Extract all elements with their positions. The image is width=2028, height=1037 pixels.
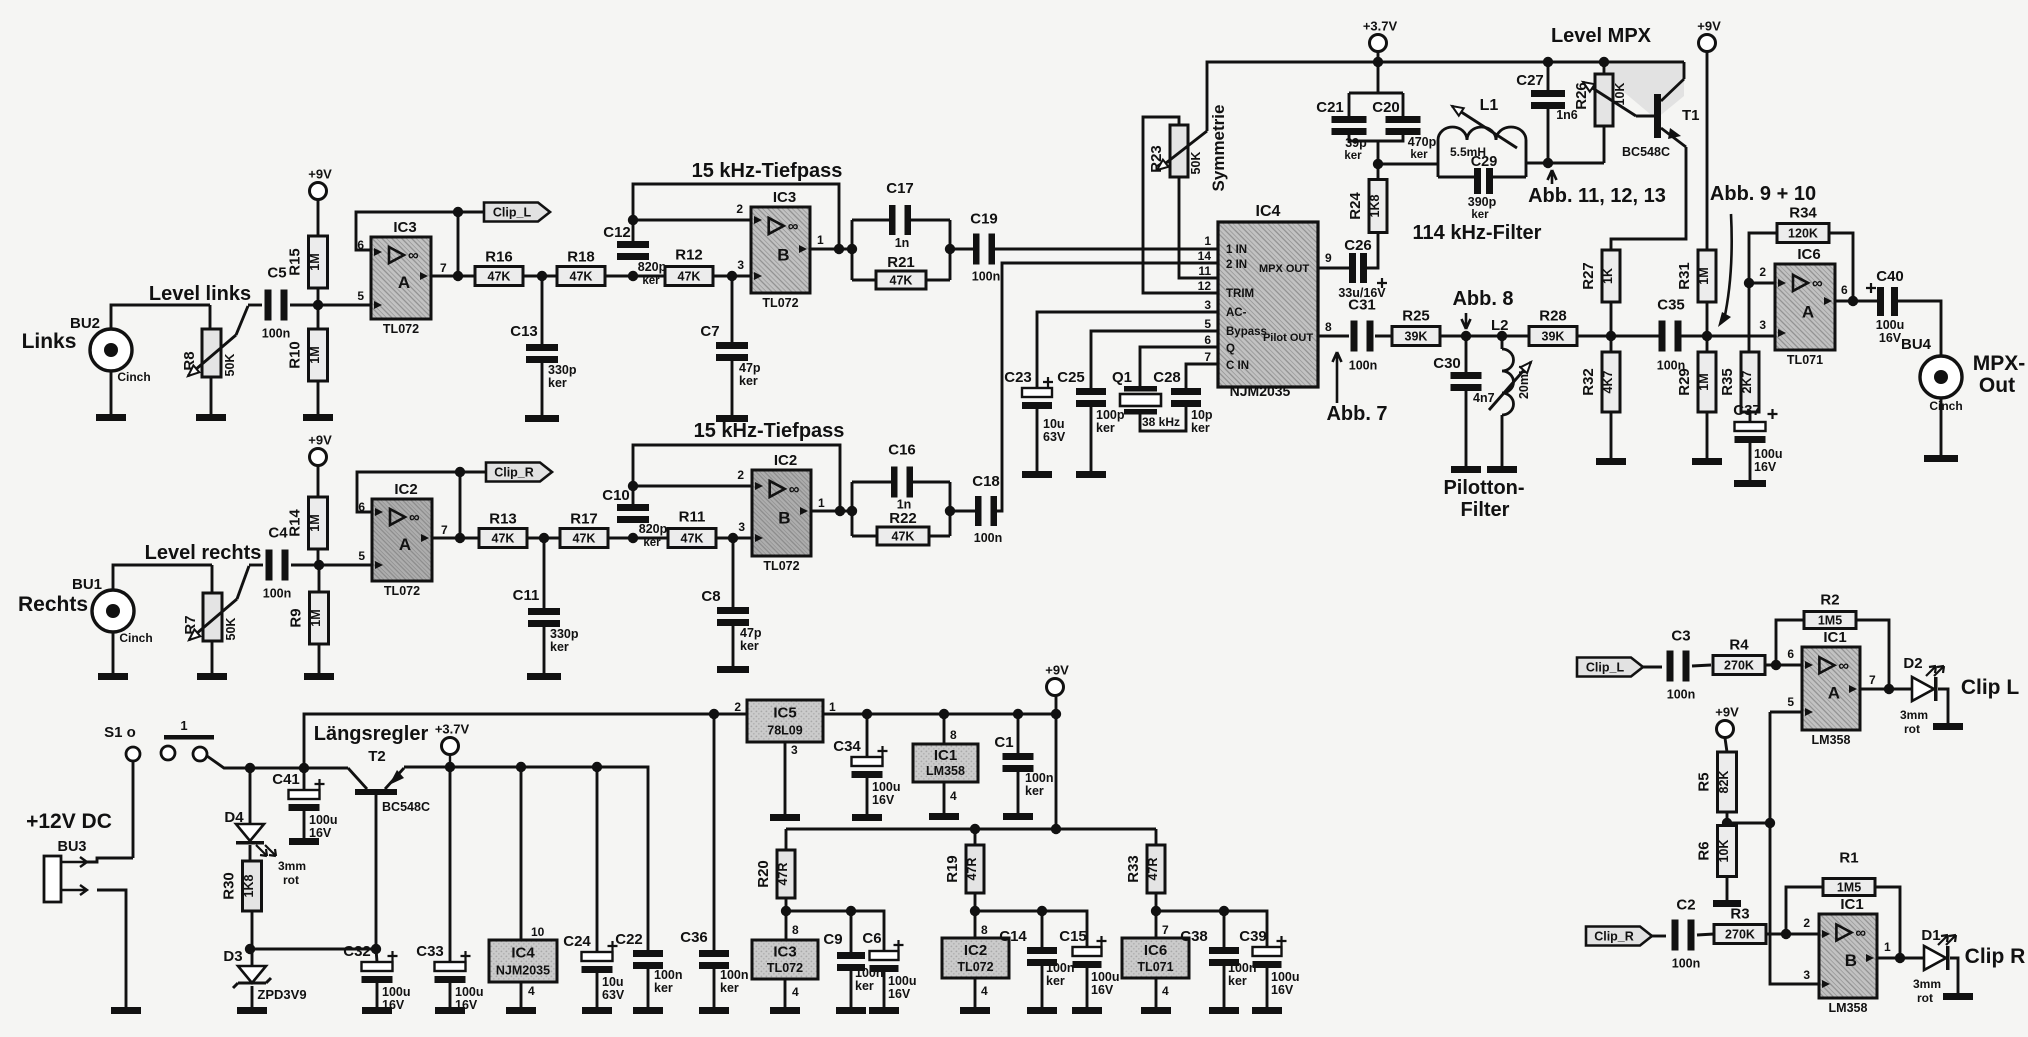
svg-text:100n: 100n: [1657, 359, 1686, 373]
svg-text:47K: 47K: [492, 532, 515, 546]
wire: [784, 742, 787, 814]
wire: [431, 275, 476, 278]
junction: [592, 762, 602, 772]
wire: [318, 643, 321, 673]
capacitor C1: [994, 734, 1053, 798]
svg-text:1K: 1K: [1601, 268, 1615, 284]
ground: [1933, 723, 1963, 730]
svg-text:C12: C12: [603, 224, 631, 241]
capacitor C26: [1338, 237, 1387, 300]
svg-text:IC3: IC3: [393, 219, 416, 236]
svg-text:330p: 330p: [550, 627, 579, 641]
wire: [1186, 364, 1218, 388]
wire: [1055, 714, 1058, 829]
wire: [1155, 893, 1158, 938]
ground: [435, 1007, 465, 1014]
svg-text:2 IN: 2 IN: [1226, 259, 1247, 271]
wire: [236, 306, 248, 335]
resistor R12: [665, 247, 713, 286]
svg-text:C1: C1: [994, 734, 1013, 751]
svg-text:IC2: IC2: [964, 942, 987, 959]
junction: [1771, 660, 1781, 670]
svg-text:7: 7: [1162, 923, 1169, 937]
junction: [1373, 57, 1383, 67]
svg-text:C37: C37: [1733, 402, 1761, 419]
+3.7V supply (regulator): [435, 722, 470, 755]
ground: [716, 415, 748, 422]
wire: [1143, 117, 1218, 293]
svg-text:3: 3: [1803, 968, 1810, 982]
svg-text:BU4: BU4: [1901, 336, 1932, 353]
resistor R4: [1713, 637, 1765, 675]
wire: [132, 761, 135, 858]
resistor R29: [1676, 352, 1716, 412]
wire: [731, 276, 734, 342]
inductor L1 (5.5mH) with C29 tank: [1438, 97, 1526, 221]
svg-text:100n: 100n: [263, 587, 292, 601]
svg-text:R14: R14: [287, 509, 304, 537]
wire: [211, 565, 214, 593]
wire: [994, 248, 1218, 251]
svg-text:C25: C25: [1057, 369, 1085, 386]
capacitor C40: [1866, 268, 1904, 345]
wire: [1041, 911, 1044, 947]
svg-text:7: 7: [1869, 673, 1876, 687]
svg-text:47p: 47p: [739, 361, 761, 375]
svg-text:16V: 16V: [1754, 460, 1777, 474]
resistor R27: [1580, 250, 1620, 302]
wire: [1636, 115, 1655, 118]
wire: [251, 949, 254, 966]
svg-text:IC3: IC3: [773, 189, 796, 206]
ground: [852, 814, 882, 821]
svg-text:R27: R27: [1580, 262, 1597, 290]
+9V supply (links): [308, 167, 332, 200]
wire: [1318, 267, 1349, 270]
svg-text:100p: 100p: [1096, 408, 1125, 422]
svg-text:1: 1: [180, 718, 187, 733]
wire: [1706, 302, 1709, 336]
junction: [1606, 331, 1616, 341]
svg-text:16V: 16V: [309, 826, 332, 840]
svg-text:+9V: +9V: [308, 167, 332, 182]
svg-text:820p: 820p: [638, 260, 667, 274]
junction: [834, 244, 844, 254]
svg-text:C38: C38: [1180, 928, 1208, 945]
svg-text:7: 7: [1204, 350, 1211, 364]
wire: [1697, 934, 1714, 935]
wire: [251, 986, 254, 1007]
svg-text:47R: 47R: [776, 863, 790, 886]
resistor R31: [1676, 250, 1716, 302]
connector BU1 (Cinch): [72, 576, 153, 645]
ground: [1924, 455, 1958, 462]
wire: [290, 304, 371, 307]
capacitor C7: [700, 323, 760, 388]
wire: [732, 626, 735, 666]
junction: [299, 763, 309, 773]
svg-text:9: 9: [1325, 251, 1332, 265]
wire: [248, 304, 262, 307]
svg-text:82K: 82K: [1717, 771, 1731, 794]
resistor R25: [1392, 308, 1440, 346]
diode D1: [1924, 935, 1956, 970]
wire: [1643, 666, 1662, 669]
+9V supply (regulator out): [1045, 663, 1069, 696]
svg-text:R2: R2: [1820, 592, 1839, 609]
svg-text:114 kHz-Filter: 114 kHz-Filter: [1413, 222, 1542, 244]
op-amp IC1B: [1819, 896, 1877, 1015]
switch S1: [104, 718, 214, 761]
wire: [1493, 176, 1526, 179]
wire: [851, 220, 854, 280]
svg-text:2: 2: [734, 700, 741, 714]
text Abb. 7 with arrow: [1333, 352, 1342, 403]
wire: [950, 510, 976, 513]
ground: [1943, 993, 1973, 1000]
wire: [1207, 61, 1684, 63]
svg-text:B: B: [778, 508, 790, 527]
svg-text:8: 8: [981, 923, 988, 937]
svg-text:NJM2035: NJM2035: [1230, 383, 1291, 399]
ground: [1596, 458, 1626, 465]
svg-text:4: 4: [950, 789, 957, 803]
svg-text:4: 4: [1162, 984, 1169, 998]
junction: [835, 506, 845, 516]
wire: [211, 641, 214, 673]
wire: [1766, 933, 1819, 936]
svg-text:47p: 47p: [740, 626, 762, 640]
svg-text:MPX OUT: MPX OUT: [1259, 263, 1309, 275]
potentiometer R23 (Symmetrie): [1148, 125, 1203, 177]
wire: [811, 510, 854, 513]
svg-text:IC1: IC1: [1840, 896, 1863, 913]
ground: [869, 1007, 899, 1014]
svg-text:Level MPX: Level MPX: [1551, 25, 1652, 47]
wire: [1877, 957, 1924, 960]
wire: [1037, 312, 1218, 388]
wire: [929, 535, 950, 538]
svg-text:1M: 1M: [1697, 373, 1711, 390]
svg-text:BU3: BU3: [57, 839, 86, 855]
capacitor C18: [972, 473, 1002, 545]
wire: [1349, 92, 1403, 95]
ground: [836, 1007, 866, 1014]
wire: [1440, 335, 1528, 338]
svg-text:100u: 100u: [455, 985, 484, 999]
svg-text:100u: 100u: [1754, 447, 1783, 461]
svg-text:∞: ∞: [789, 481, 800, 498]
svg-text:C14: C14: [999, 928, 1027, 945]
junction: [1373, 159, 1383, 169]
svg-text:47K: 47K: [681, 532, 704, 546]
svg-text:Clip R: Clip R: [1965, 945, 2026, 968]
wire: [543, 538, 546, 608]
svg-text:+9V: +9V: [1045, 663, 1069, 678]
wire: [1155, 978, 1158, 1007]
svg-text:IC6: IC6: [1797, 246, 1820, 263]
wire: [850, 971, 853, 1007]
resistor R21: [876, 254, 926, 289]
wire: [249, 768, 252, 824]
svg-text:TL071: TL071: [1137, 960, 1173, 974]
text Abb. 11, 12, 13 with arrow: [1548, 170, 1557, 184]
svg-text:1M5: 1M5: [1818, 614, 1842, 628]
capacitor C19: [970, 211, 1000, 284]
svg-text:R4: R4: [1729, 637, 1749, 654]
svg-text:270K: 270K: [1725, 928, 1755, 942]
svg-text:C10: C10: [602, 487, 630, 504]
junction: [537, 271, 547, 281]
svg-text:8: 8: [792, 923, 799, 937]
svg-text:5: 5: [357, 289, 364, 303]
svg-text:100u: 100u: [872, 780, 901, 794]
wire: [1856, 620, 1889, 689]
svg-text:R9: R9: [288, 608, 305, 627]
svg-text:R15: R15: [287, 248, 304, 276]
wire: [1749, 443, 1752, 480]
svg-text:C30: C30: [1433, 355, 1461, 372]
svg-text:C41: C41: [272, 771, 300, 788]
node node Clip_R (input): [1586, 927, 1652, 946]
ground: [1003, 813, 1033, 820]
svg-text:8: 8: [1325, 320, 1332, 334]
junction: [1722, 818, 1732, 828]
wire: [541, 363, 544, 415]
svg-text:T2: T2: [368, 748, 386, 765]
capacitor C39: [1239, 928, 1299, 997]
wire: [731, 361, 734, 415]
wire: [1501, 336, 1504, 349]
wire: [250, 948, 376, 951]
svg-text:47K: 47K: [892, 530, 915, 544]
junction: [628, 215, 638, 225]
wire: [318, 565, 321, 593]
wire: [786, 911, 884, 951]
wire: [1090, 407, 1093, 471]
svg-text:C39: C39: [1239, 928, 1267, 945]
junction: [314, 560, 324, 570]
junction: [245, 944, 255, 954]
svg-text:39K: 39K: [1405, 330, 1428, 344]
wire: [523, 275, 557, 278]
svg-text:C24: C24: [563, 933, 591, 950]
wire: [304, 714, 747, 768]
capacitor C6: [862, 930, 916, 1001]
wire: [1610, 412, 1613, 458]
svg-text:+3.7V: +3.7V: [1363, 19, 1398, 34]
svg-text:100u: 100u: [888, 974, 917, 988]
svg-text:2: 2: [1803, 916, 1810, 930]
wire: [317, 381, 320, 414]
svg-text:39K: 39K: [1542, 330, 1565, 344]
wire: [1140, 347, 1218, 386]
svg-text:10u: 10u: [1043, 417, 1065, 431]
IC IC2 (power): [942, 938, 1009, 978]
wire: [1726, 877, 1729, 900]
wire: [541, 276, 544, 344]
svg-text:D2: D2: [1903, 655, 1922, 672]
svg-text:6: 6: [1204, 333, 1211, 347]
svg-text:C5: C5: [267, 265, 286, 282]
svg-text:L2: L2: [1491, 317, 1509, 334]
svg-text:TL071: TL071: [1787, 353, 1823, 367]
wire: [784, 979, 787, 1007]
svg-text:100u: 100u: [309, 813, 338, 827]
svg-text:T1: T1: [1682, 107, 1700, 124]
svg-text:Cinch: Cinch: [1929, 399, 1962, 413]
wire: [974, 978, 977, 1007]
svg-text:A: A: [399, 535, 411, 554]
svg-text:TL072: TL072: [763, 559, 799, 573]
wire: [1603, 126, 1606, 163]
wire: [1017, 772, 1020, 813]
op-amp IC2B: [752, 452, 811, 573]
ground: [1713, 900, 1741, 907]
svg-text:AC-: AC-: [1226, 307, 1247, 319]
ground: [1022, 471, 1052, 478]
wire: [943, 714, 946, 744]
svg-text:2: 2: [737, 468, 744, 482]
svg-text:1M: 1M: [308, 514, 322, 531]
resistor R6: [1696, 826, 1737, 877]
svg-text:C22: C22: [615, 931, 643, 948]
resistor R24: [1347, 180, 1387, 233]
svg-text:R17: R17: [570, 511, 598, 528]
wire: [996, 263, 1218, 511]
wire: [449, 754, 451, 767]
ground: [506, 1007, 536, 1014]
wire: [87, 858, 133, 862]
svg-text:rot: rot: [1917, 991, 1933, 1005]
junction: [939, 709, 949, 719]
svg-text:R13: R13: [489, 511, 517, 528]
svg-text:4K7: 4K7: [1601, 370, 1615, 393]
junction: [628, 533, 638, 543]
svg-text:C16: C16: [888, 442, 916, 459]
svg-text:390p: 390p: [1468, 195, 1497, 209]
wire: [1091, 331, 1218, 388]
wire: [97, 890, 126, 1007]
svg-text:1 IN: 1 IN: [1226, 244, 1247, 256]
svg-text:ker: ker: [1046, 974, 1065, 988]
svg-text:4: 4: [528, 984, 535, 998]
wire: [716, 537, 752, 540]
wire: [1041, 966, 1044, 1007]
junction: [539, 533, 549, 543]
wire: [1377, 141, 1380, 164]
svg-text:∞: ∞: [1855, 924, 1866, 941]
wire: [1402, 93, 1405, 116]
svg-text:ker: ker: [1191, 421, 1210, 435]
svg-text:+9V: +9V: [1697, 19, 1721, 34]
capacitor C23: [1004, 369, 1066, 444]
wire: [317, 548, 320, 565]
wire: [1786, 887, 1823, 934]
wire: [713, 275, 751, 278]
svg-text:Pilot OUT: Pilot OUT: [1263, 332, 1313, 344]
wire: [950, 248, 974, 251]
svg-text:10u: 10u: [602, 975, 624, 989]
svg-text:3: 3: [791, 743, 798, 757]
svg-text:100n: 100n: [1349, 359, 1378, 373]
svg-text:∞: ∞: [1812, 275, 1823, 292]
wire: [317, 466, 320, 498]
svg-text:7: 7: [440, 261, 447, 275]
svg-text:C8: C8: [701, 588, 720, 605]
svg-text:TL072: TL072: [957, 960, 993, 974]
svg-text:BC548C: BC548C: [1622, 145, 1670, 159]
svg-text:15 kHz-Tiefpass: 15 kHz-Tiefpass: [692, 160, 843, 182]
op-amp IC3B: [751, 189, 810, 310]
ground: [960, 1007, 990, 1014]
wire: [527, 537, 560, 540]
svg-text:+12V DC: +12V DC: [26, 810, 112, 833]
svg-text:1: 1: [817, 233, 824, 247]
wire: [1465, 391, 1468, 466]
svg-text:C36: C36: [680, 929, 708, 946]
junction: [1051, 824, 1061, 834]
ground: [237, 1007, 267, 1014]
svg-text:Level rechts: Level rechts: [145, 542, 262, 564]
wire: [633, 184, 839, 248]
svg-text:47K: 47K: [890, 274, 913, 288]
svg-text:100n: 100n: [1046, 961, 1075, 975]
wire: [1860, 688, 1912, 691]
svg-text:IC2: IC2: [774, 452, 797, 469]
connector BU3 (DC jack): [44, 839, 87, 902]
wire: [1140, 407, 1186, 431]
svg-text:R19: R19: [944, 855, 961, 883]
resistor R32: [1580, 352, 1620, 412]
wire: [1349, 135, 1403, 141]
svg-text:TL072: TL072: [384, 584, 420, 598]
svg-text:C27: C27: [1516, 72, 1544, 89]
wire: [1706, 52, 1709, 250]
svg-text:1: 1: [1884, 940, 1891, 954]
resistor R10: [287, 329, 328, 381]
junction: [1543, 57, 1553, 67]
svg-text:R35: R35: [1719, 368, 1736, 396]
svg-text:100n: 100n: [972, 270, 1001, 284]
svg-text:ker: ker: [550, 640, 569, 654]
wire: [974, 893, 977, 938]
wire: [1898, 301, 1941, 355]
svg-text:R34: R34: [1789, 205, 1817, 222]
svg-text:3: 3: [738, 520, 745, 534]
junction: [1219, 906, 1229, 916]
wire: [596, 973, 599, 1007]
svg-text:7: 7: [441, 523, 448, 537]
wire: [209, 305, 212, 329]
svg-text:3mm: 3mm: [1913, 977, 1941, 991]
junction: [455, 533, 465, 543]
wire: [458, 212, 484, 276]
diode D2: [1912, 666, 1944, 701]
resistor R33: [1125, 845, 1165, 893]
wire: [633, 219, 751, 222]
resistor R30: [221, 861, 262, 911]
capacitor C24: [563, 933, 625, 1002]
svg-text:100u: 100u: [1091, 970, 1120, 984]
svg-text:1M5: 1M5: [1837, 881, 1861, 895]
ground: [633, 1007, 663, 1014]
svg-text:C34: C34: [833, 738, 861, 755]
resistor R9: [288, 592, 329, 644]
svg-text:∞: ∞: [408, 247, 419, 264]
svg-text:16V: 16V: [1271, 983, 1294, 997]
svg-text:C18: C18: [972, 473, 1000, 490]
